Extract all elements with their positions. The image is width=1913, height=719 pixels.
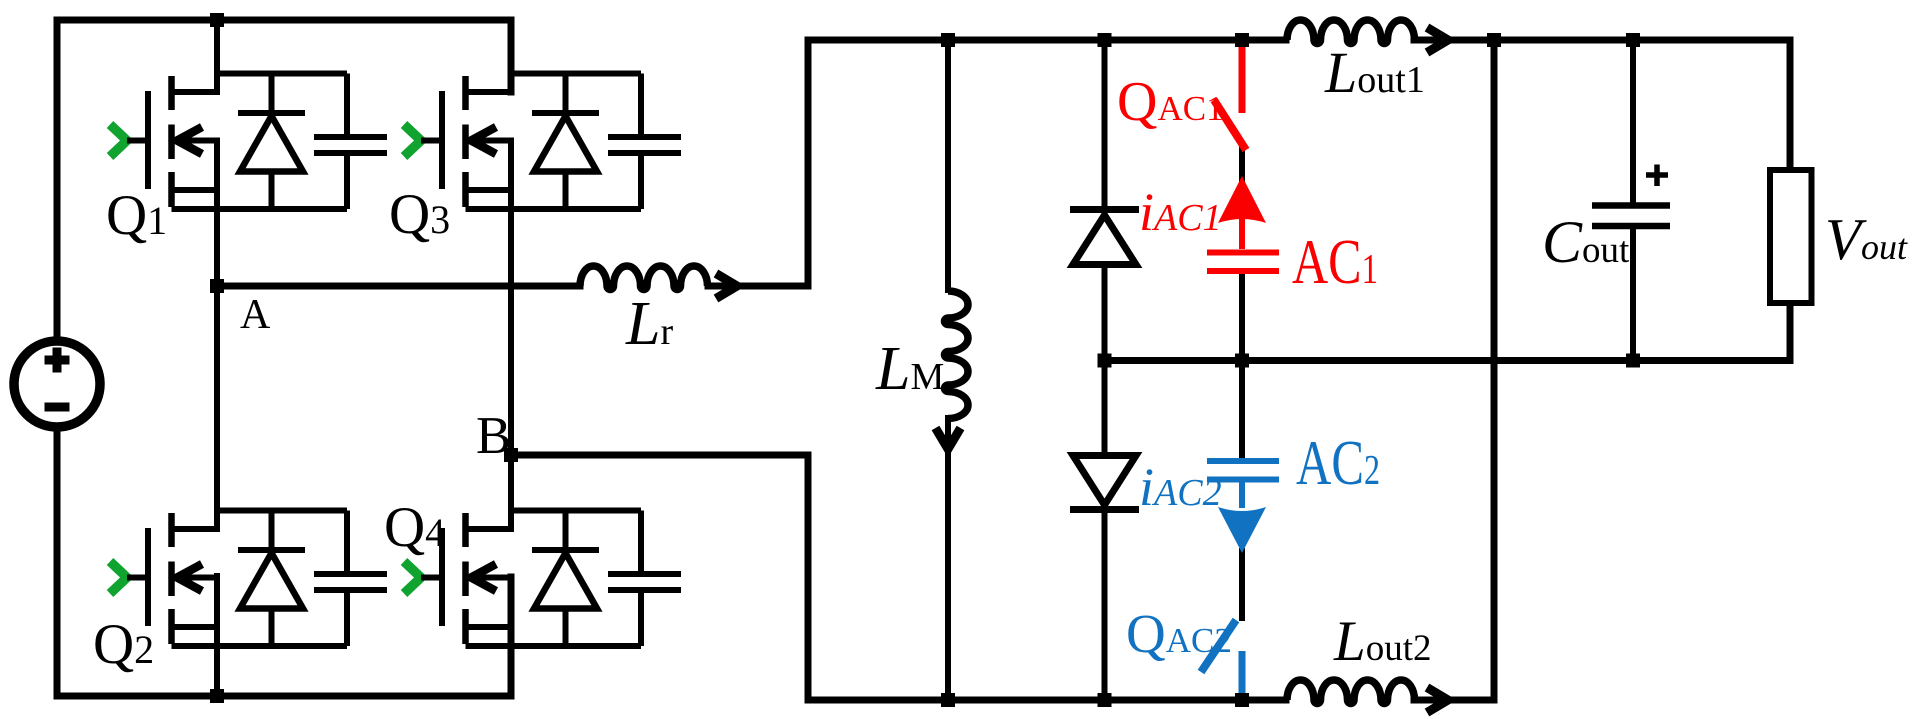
svg-text:LM: LM [875,335,944,403]
svg-text:Q2: Q2 [93,613,154,676]
svg-text:Lout1: Lout1 [1324,40,1425,105]
svg-text:Lout2: Lout2 [1333,610,1431,673]
svg-text:iAC2: iAC2 [1139,457,1222,517]
svg-text:QAC1: QAC1 [1117,71,1224,133]
svg-text:QAC2: QAC2 [1126,603,1232,664]
svg-text:Vout: Vout [1825,206,1908,272]
svg-text:Q3: Q3 [389,183,450,246]
svg-text:Q4: Q4 [384,496,445,559]
svg-text:A: A [240,292,271,338]
svg-text:iAC1: iAC1 [1139,182,1222,242]
svg-text:AC1: AC1 [1292,226,1378,297]
svg-text:Q1: Q1 [106,184,167,247]
svg-text:Lr: Lr [625,290,673,358]
svg-text:AC2: AC2 [1296,427,1380,498]
svg-text:B: B [476,407,511,465]
svg-text:Cout: Cout [1542,209,1630,275]
